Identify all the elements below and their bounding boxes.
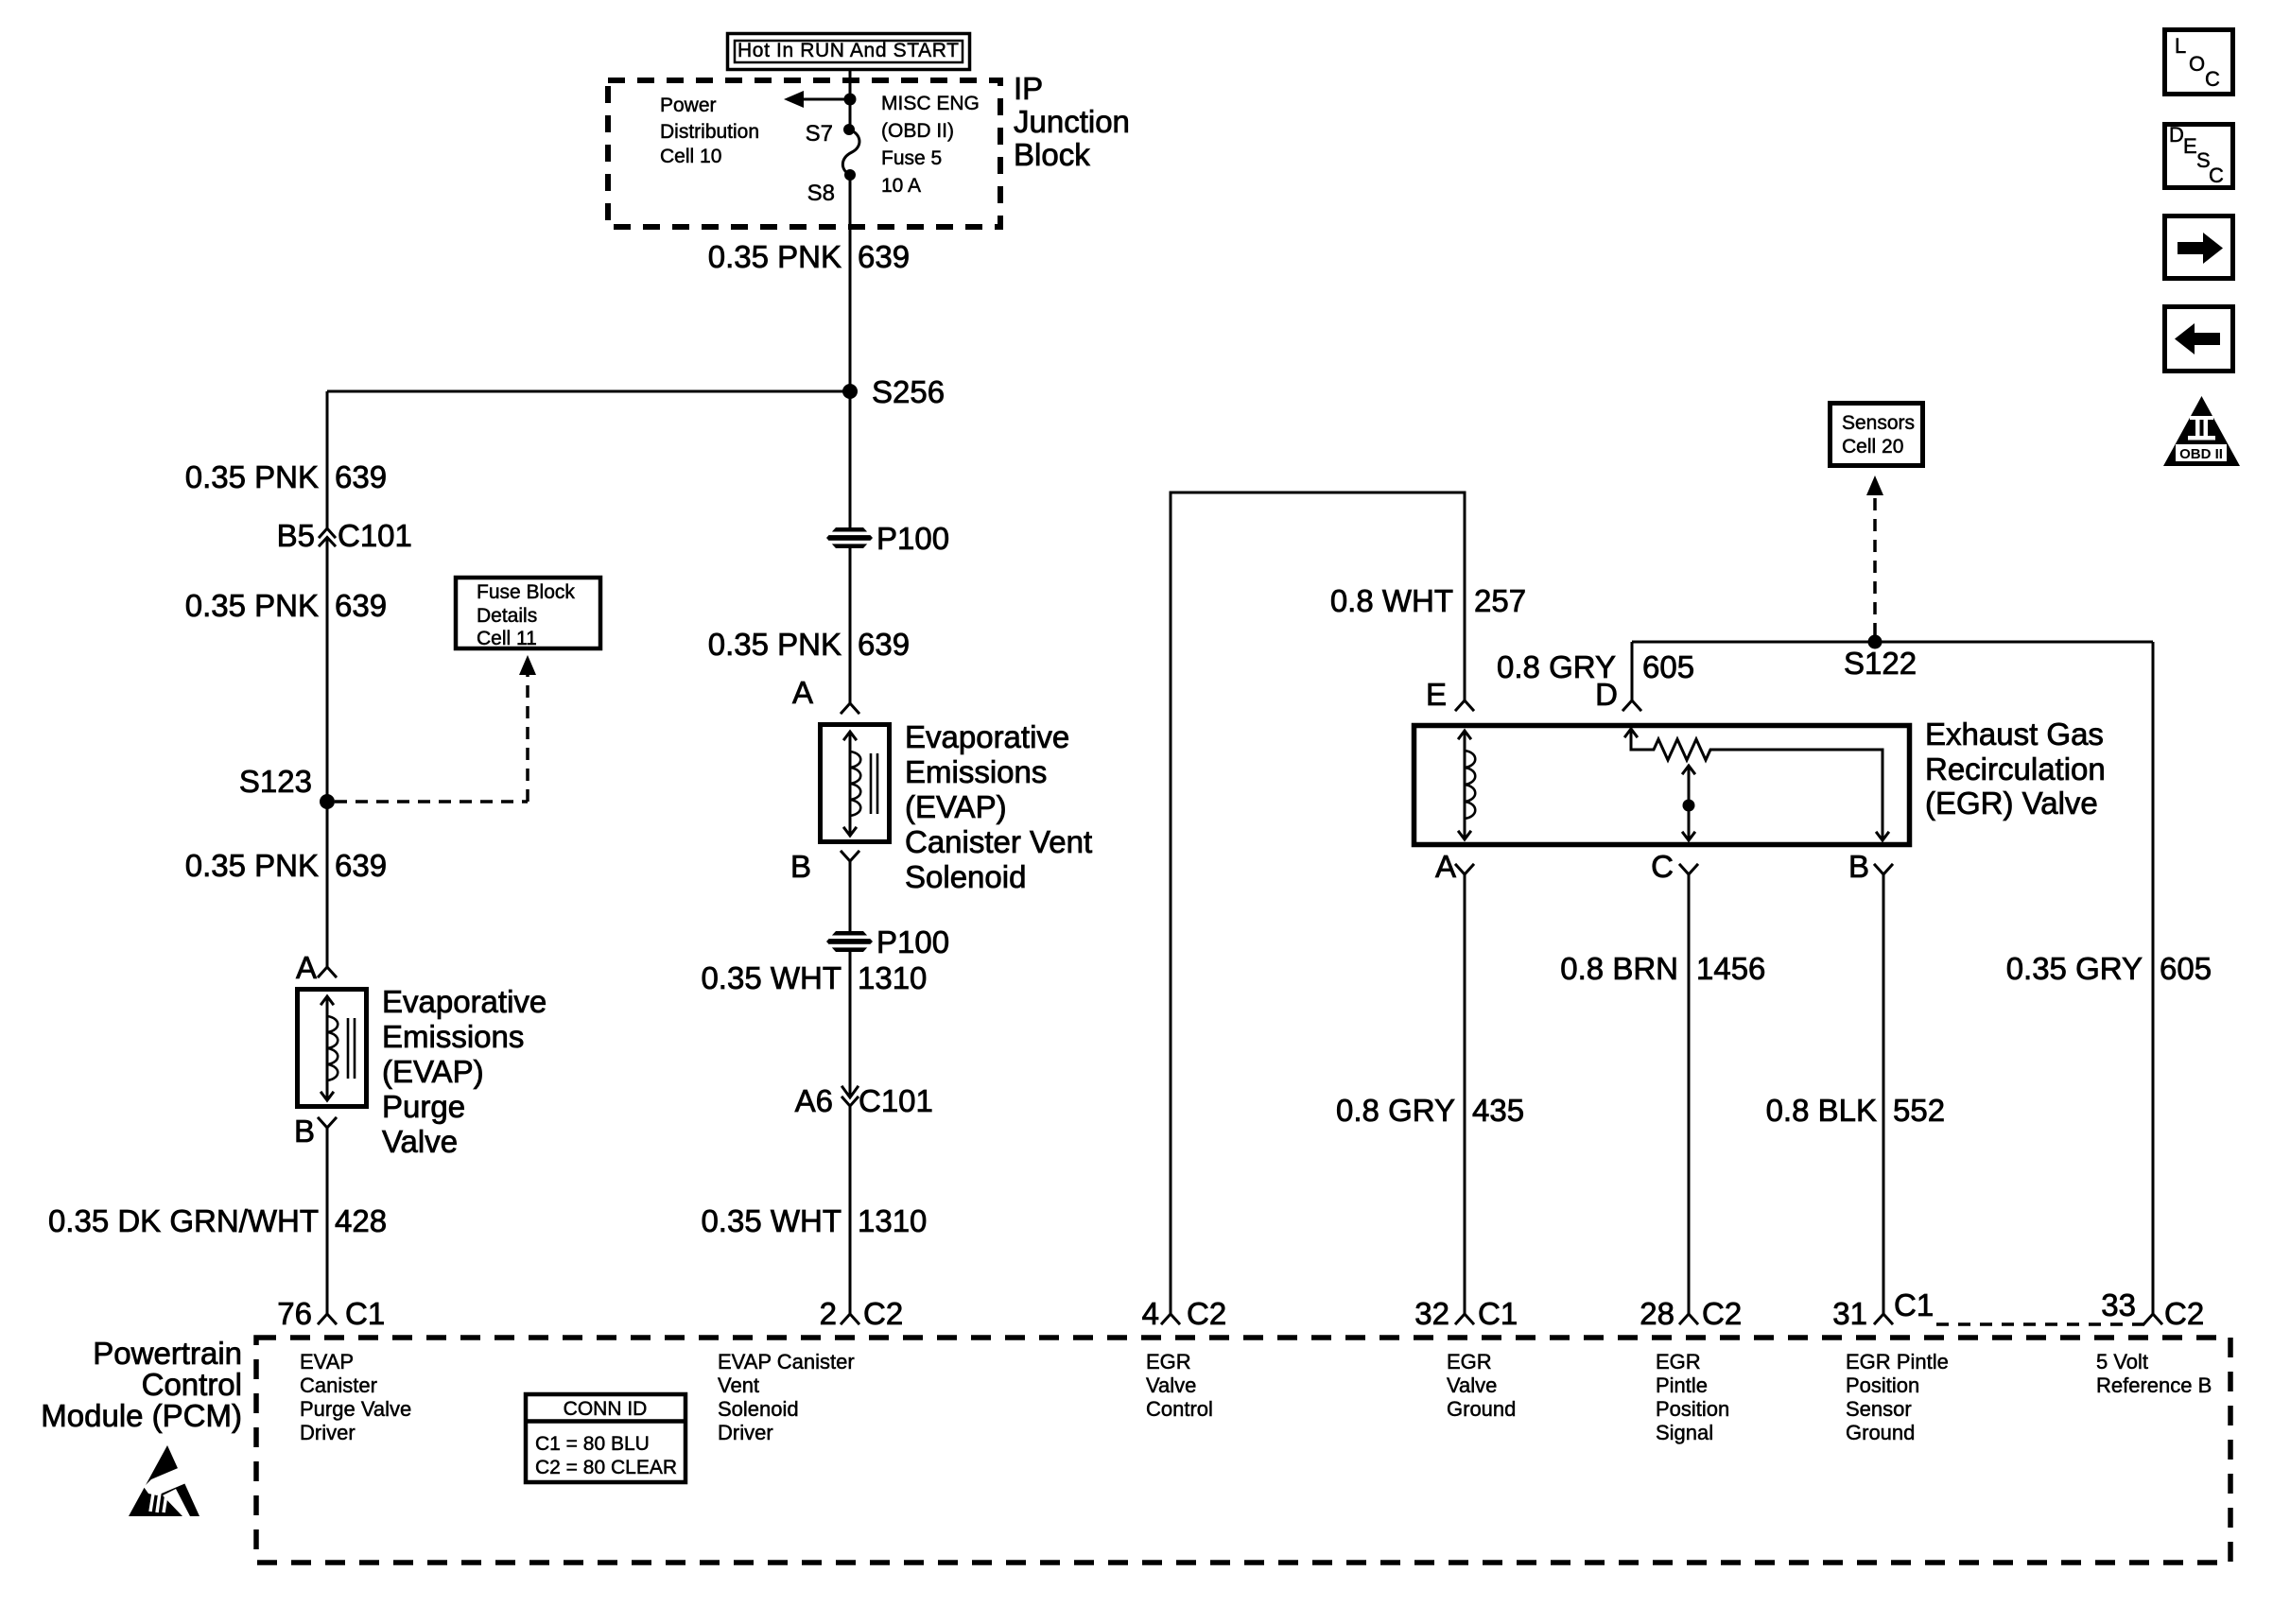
node S8 dot (844, 169, 856, 181)
wire: EGR pin B down to PCM pin 31 (1883, 874, 1885, 1314)
wire: C101 down to PCM pin 2 (849, 1106, 852, 1314)
svg-text:10 A: 10 A (881, 175, 921, 197)
svg-text:639: 639 (335, 588, 387, 623)
svg-text:C1 = 80 BLU: C1 = 80 BLU (535, 1433, 650, 1455)
PCM pin 32 terminal (1456, 1314, 1473, 1323)
wire: vent solenoid B down to P100 (849, 861, 852, 931)
svg-text:32: 32 (1414, 1296, 1449, 1331)
svg-text:639: 639 (335, 459, 387, 494)
svg-text:552: 552 (1893, 1093, 1945, 1128)
svg-text:Driver: Driver (718, 1421, 773, 1444)
svg-text:Emissions: Emissions (905, 754, 1047, 789)
svg-text:S122: S122 (1844, 646, 1917, 681)
svg-text:Solenoid: Solenoid (905, 859, 1026, 894)
PCM pin 4 terminal (1162, 1314, 1179, 1323)
svg-text:D: D (1595, 677, 1618, 712)
svg-text:Fuse 5: Fuse 5 (881, 147, 942, 169)
svg-text:639: 639 (858, 239, 910, 274)
svg-text:605: 605 (1642, 649, 1694, 684)
PCM dashed box (256, 1338, 2230, 1563)
svg-text:Purge Valve: Purge Valve (300, 1397, 411, 1421)
wire: fuse feed from Hot box to S7 (849, 68, 852, 130)
svg-text:D: D (2169, 123, 2184, 147)
svg-text:Hot In RUN And START: Hot In RUN And START (737, 40, 959, 61)
svg-text:Valve: Valve (382, 1124, 458, 1159)
svg-text:C: C (2205, 67, 2220, 91)
svg-text:C2: C2 (2164, 1296, 2204, 1331)
EGR solenoid coil symbol (1459, 731, 1475, 839)
svg-text:0.8 WHT: 0.8 WHT (1330, 583, 1453, 618)
svg-text:C2: C2 (1187, 1296, 1226, 1331)
pin B of EGR valve (1875, 865, 1892, 874)
PCM pin 2 terminal (842, 1314, 859, 1323)
svg-text:Details: Details (477, 605, 537, 627)
PCM pin 28 terminal (1680, 1314, 1697, 1323)
svg-text:Cell 11: Cell 11 (477, 628, 537, 649)
svg-text:435: 435 (1472, 1093, 1524, 1128)
svg-text:Powertrain: Powertrain (93, 1336, 242, 1371)
svg-text:0.35 PNK: 0.35 PNK (185, 459, 319, 494)
wire: S256 horizontal to left branch (327, 390, 850, 393)
svg-text:A: A (296, 950, 317, 985)
svg-text:0.35 GRY: 0.35 GRY (2006, 951, 2143, 986)
wiper (1688, 766, 1691, 840)
grommet P100 (upper) (826, 527, 873, 548)
svg-text:B5: B5 (277, 518, 315, 553)
dashed reference line S122 to Sensors Cell 20 (1873, 498, 1877, 635)
ESD warning triangle (129, 1445, 200, 1516)
Sensors Cell 20 box (1831, 404, 1923, 466)
svg-text:E: E (1426, 677, 1447, 712)
svg-text:IP: IP (1014, 71, 1043, 106)
svg-text:Solenoid: Solenoid (718, 1397, 799, 1421)
svg-text:Position: Position (1846, 1373, 1919, 1397)
svg-text:Evaporative: Evaporative (905, 719, 1069, 754)
arrowhead to Sensors box (1866, 475, 1883, 495)
svg-text:76: 76 (277, 1296, 312, 1331)
dashed connector grouping line between pin 31 C1 and pin 33 (1936, 1322, 2148, 1326)
wire: C101 down to EVAP purge valve pin A (326, 538, 329, 968)
svg-text:Distribution: Distribution (660, 121, 759, 143)
svg-text:E: E (2183, 134, 2197, 158)
wire: P100 to EVAP vent solenoid pin A (849, 548, 852, 703)
svg-text:A6: A6 (795, 1083, 833, 1118)
LOC icon box (2165, 30, 2233, 95)
svg-text:B: B (294, 1114, 315, 1149)
svg-text:EGR Pintle: EGR Pintle (1846, 1350, 1949, 1373)
svg-text:A: A (1435, 849, 1456, 884)
pin E of EGR valve (1456, 700, 1473, 710)
dashed reference line S123 to Fuse Block Details (335, 800, 528, 803)
svg-text:Driver: Driver (300, 1421, 356, 1444)
arrowhead to Fuse Block Details box (519, 655, 536, 675)
pin A of EVAP vent solenoid (842, 703, 859, 713)
svg-text:C: C (2209, 164, 2224, 187)
svg-text:OBD II: OBD II (2179, 446, 2223, 462)
CONN ID box (526, 1394, 685, 1482)
PCM pin 76 terminal (319, 1314, 336, 1323)
svg-text:C2 = 80 CLEAR: C2 = 80 CLEAR (535, 1457, 677, 1478)
svg-text:2: 2 (820, 1296, 837, 1331)
wire: S8 down to S256 (849, 175, 852, 391)
back arrow icon box (2165, 307, 2233, 371)
IP Junction Block dashed box (608, 80, 1000, 227)
svg-text:Cell 10: Cell 10 (660, 146, 721, 167)
svg-text:Block: Block (1014, 137, 1090, 172)
svg-text:S7: S7 (806, 121, 833, 147)
svg-text:Sensor: Sensor (1846, 1397, 1912, 1421)
splice S122 dot (1868, 635, 1883, 649)
svg-text:L: L (2175, 34, 2186, 58)
svg-text:31: 31 (1832, 1296, 1867, 1331)
wire: left branch down to C101 (B5) (326, 391, 329, 528)
svg-text:C101: C101 (338, 518, 412, 553)
svg-text:Position: Position (1656, 1397, 1729, 1421)
wire: EVAP purge valve B down to PCM pin 76 (326, 1128, 329, 1314)
svg-text:MISC ENG: MISC ENG (881, 93, 980, 114)
svg-text:Evaporative: Evaporative (382, 984, 547, 1019)
wire: EGR pin D up to S122 rail (1631, 642, 1634, 700)
pin B of EVAP vent solenoid (842, 852, 859, 861)
pin B of EVAP purge valve (319, 1118, 336, 1128)
svg-text:1456: 1456 (1696, 951, 1765, 986)
svg-text:0.35 PNK: 0.35 PNK (185, 848, 319, 883)
EVAP vent solenoid box (821, 725, 890, 842)
svg-text:Emissions: Emissions (382, 1019, 524, 1054)
svg-text:B: B (790, 849, 811, 884)
SIDEBAR (2163, 30, 2240, 467)
svg-text:B: B (1848, 849, 1869, 884)
svg-text:P100: P100 (876, 924, 949, 959)
svg-text:EGR: EGR (1656, 1350, 1701, 1373)
svg-text:C1: C1 (1894, 1287, 1934, 1322)
svg-text:0.35 WHT: 0.35 WHT (701, 960, 842, 995)
EGR potentiometer (1625, 729, 1888, 840)
forward arrow icon box (2165, 216, 2233, 279)
svg-text:Junction: Junction (1014, 104, 1130, 139)
connector C101 pin B5 chevrons (320, 528, 335, 545)
pin C of EGR valve (1680, 865, 1697, 874)
PCM pin 31 terminal (1875, 1314, 1892, 1323)
wire: S122 horizontal rail (1632, 641, 2153, 644)
svg-text:A: A (792, 675, 813, 710)
svg-text:EGR: EGR (1447, 1350, 1492, 1373)
node S7 dot (843, 124, 855, 135)
svg-text:Ground: Ground (1846, 1421, 1915, 1444)
svg-text:(EGR) Valve: (EGR) Valve (1925, 786, 2098, 821)
wire: EGR valve control from PCM pin 4 up and over to EGR pin E (1171, 492, 1465, 1314)
svg-text:Module (PCM): Module (PCM) (41, 1398, 242, 1433)
pin A of EVAP purge valve (319, 967, 336, 976)
svg-text:S123: S123 (239, 764, 312, 799)
connector C101 pin A6 chevrons (842, 1087, 858, 1106)
svg-text:1310: 1310 (858, 1203, 927, 1238)
svg-text:0.8 BRN: 0.8 BRN (1560, 951, 1678, 986)
svg-text:428: 428 (335, 1203, 387, 1238)
svg-text:C101: C101 (859, 1083, 933, 1118)
wire: S256 down to P100 (849, 391, 852, 527)
svg-text:Purge: Purge (382, 1089, 465, 1124)
svg-text:Valve: Valve (1146, 1373, 1196, 1397)
svg-text:(EVAP): (EVAP) (905, 789, 1007, 824)
EVAP purge valve solenoid symbol (321, 996, 355, 1100)
splice S256 dot (842, 384, 858, 399)
svg-text:Pintle: Pintle (1656, 1373, 1708, 1397)
svg-text:4: 4 (1142, 1296, 1159, 1331)
svg-text:S256: S256 (872, 374, 945, 409)
svg-text:0.35 PNK: 0.35 PNK (708, 239, 842, 274)
splice S123 dot (320, 794, 335, 809)
svg-text:EGR: EGR (1146, 1350, 1191, 1373)
svg-text:0.35 PNK: 0.35 PNK (185, 588, 319, 623)
svg-text:639: 639 (858, 627, 910, 662)
svg-text:Valve: Valve (1447, 1373, 1497, 1397)
svg-text:Cell 20: Cell 20 (1842, 436, 1903, 458)
svg-text:Canister Vent: Canister Vent (905, 824, 1092, 859)
svg-text:639: 639 (335, 848, 387, 883)
svg-text:1310: 1310 (858, 960, 927, 995)
wire: power distribution tap (790, 98, 850, 101)
svg-text:EVAP: EVAP (300, 1350, 354, 1373)
EVAP purge valve box (298, 990, 367, 1107)
svg-text:0.35 DK GRN/WHT: 0.35 DK GRN/WHT (48, 1203, 319, 1238)
svg-text:Reference B: Reference B (2096, 1373, 2212, 1397)
wire: EGR pin A down to PCM pin 32 (1464, 874, 1466, 1314)
arrowhead to Power Distribution (784, 91, 804, 108)
svg-text:S8: S8 (807, 181, 835, 206)
wire: P100 down to C101 (A6) (849, 952, 852, 1097)
svg-text:P100: P100 (876, 521, 949, 556)
svg-text:5 Volt: 5 Volt (2096, 1350, 2148, 1373)
svg-text:28: 28 (1640, 1296, 1674, 1331)
svg-text:(EVAP): (EVAP) (382, 1054, 484, 1089)
DESC icon box (2165, 123, 2233, 188)
wire: EGR pin C down to PCM pin 28 (1688, 874, 1691, 1314)
PCM pin 33 terminal (2144, 1314, 2161, 1323)
svg-text:0.8 GRY: 0.8 GRY (1336, 1093, 1455, 1128)
svg-text:257: 257 (1474, 583, 1526, 618)
svg-text:EVAP Canister: EVAP Canister (718, 1350, 855, 1373)
EGR valve box (1414, 726, 1910, 845)
Fuse Block Details box (456, 578, 600, 648)
svg-text:(OBD II): (OBD II) (881, 120, 954, 142)
svg-text:605: 605 (2160, 951, 2212, 986)
svg-text:Fuse Block: Fuse Block (477, 581, 575, 603)
svg-text:C1: C1 (345, 1296, 385, 1331)
svg-text:Vent: Vent (718, 1373, 759, 1397)
svg-text:O: O (2189, 52, 2205, 76)
svg-text:C2: C2 (863, 1296, 903, 1331)
svg-text:Signal: Signal (1656, 1421, 1713, 1444)
grommet P100 (lower) (826, 931, 873, 952)
wire: 5V reference down to PCM pin 33 (2152, 642, 2155, 1314)
svg-text:0.35 PNK: 0.35 PNK (708, 627, 842, 662)
svg-text:Canister: Canister (300, 1373, 377, 1397)
pin D of EGR valve (1623, 700, 1640, 710)
EVAP vent solenoid symbol (844, 732, 877, 836)
svg-text:Ground: Ground (1447, 1397, 1516, 1421)
svg-text:Control: Control (142, 1367, 242, 1402)
svg-text:0.8 BLK: 0.8 BLK (1766, 1093, 1877, 1128)
svg-text:Control: Control (1146, 1397, 1213, 1421)
svg-text:C1: C1 (1478, 1296, 1518, 1331)
svg-text:Sensors: Sensors (1842, 412, 1915, 434)
fuse element (S-curve) (842, 130, 859, 175)
svg-text:Exhaust Gas: Exhaust Gas (1925, 717, 2104, 752)
node: tap junction dot (844, 94, 857, 106)
Hot In RUN And START double box (728, 34, 970, 70)
svg-text:Recirculation: Recirculation (1925, 752, 2106, 786)
svg-text:0.35 WHT: 0.35 WHT (701, 1203, 842, 1238)
svg-text:Power: Power (660, 95, 717, 116)
svg-text:C2: C2 (1702, 1296, 1742, 1331)
svg-text:C: C (1651, 849, 1674, 884)
OBD II triangle icon (2163, 396, 2240, 466)
pin A of EGR valve (1456, 865, 1473, 874)
svg-text:33: 33 (2101, 1287, 2136, 1322)
svg-text:CONN ID: CONN ID (564, 1398, 648, 1420)
